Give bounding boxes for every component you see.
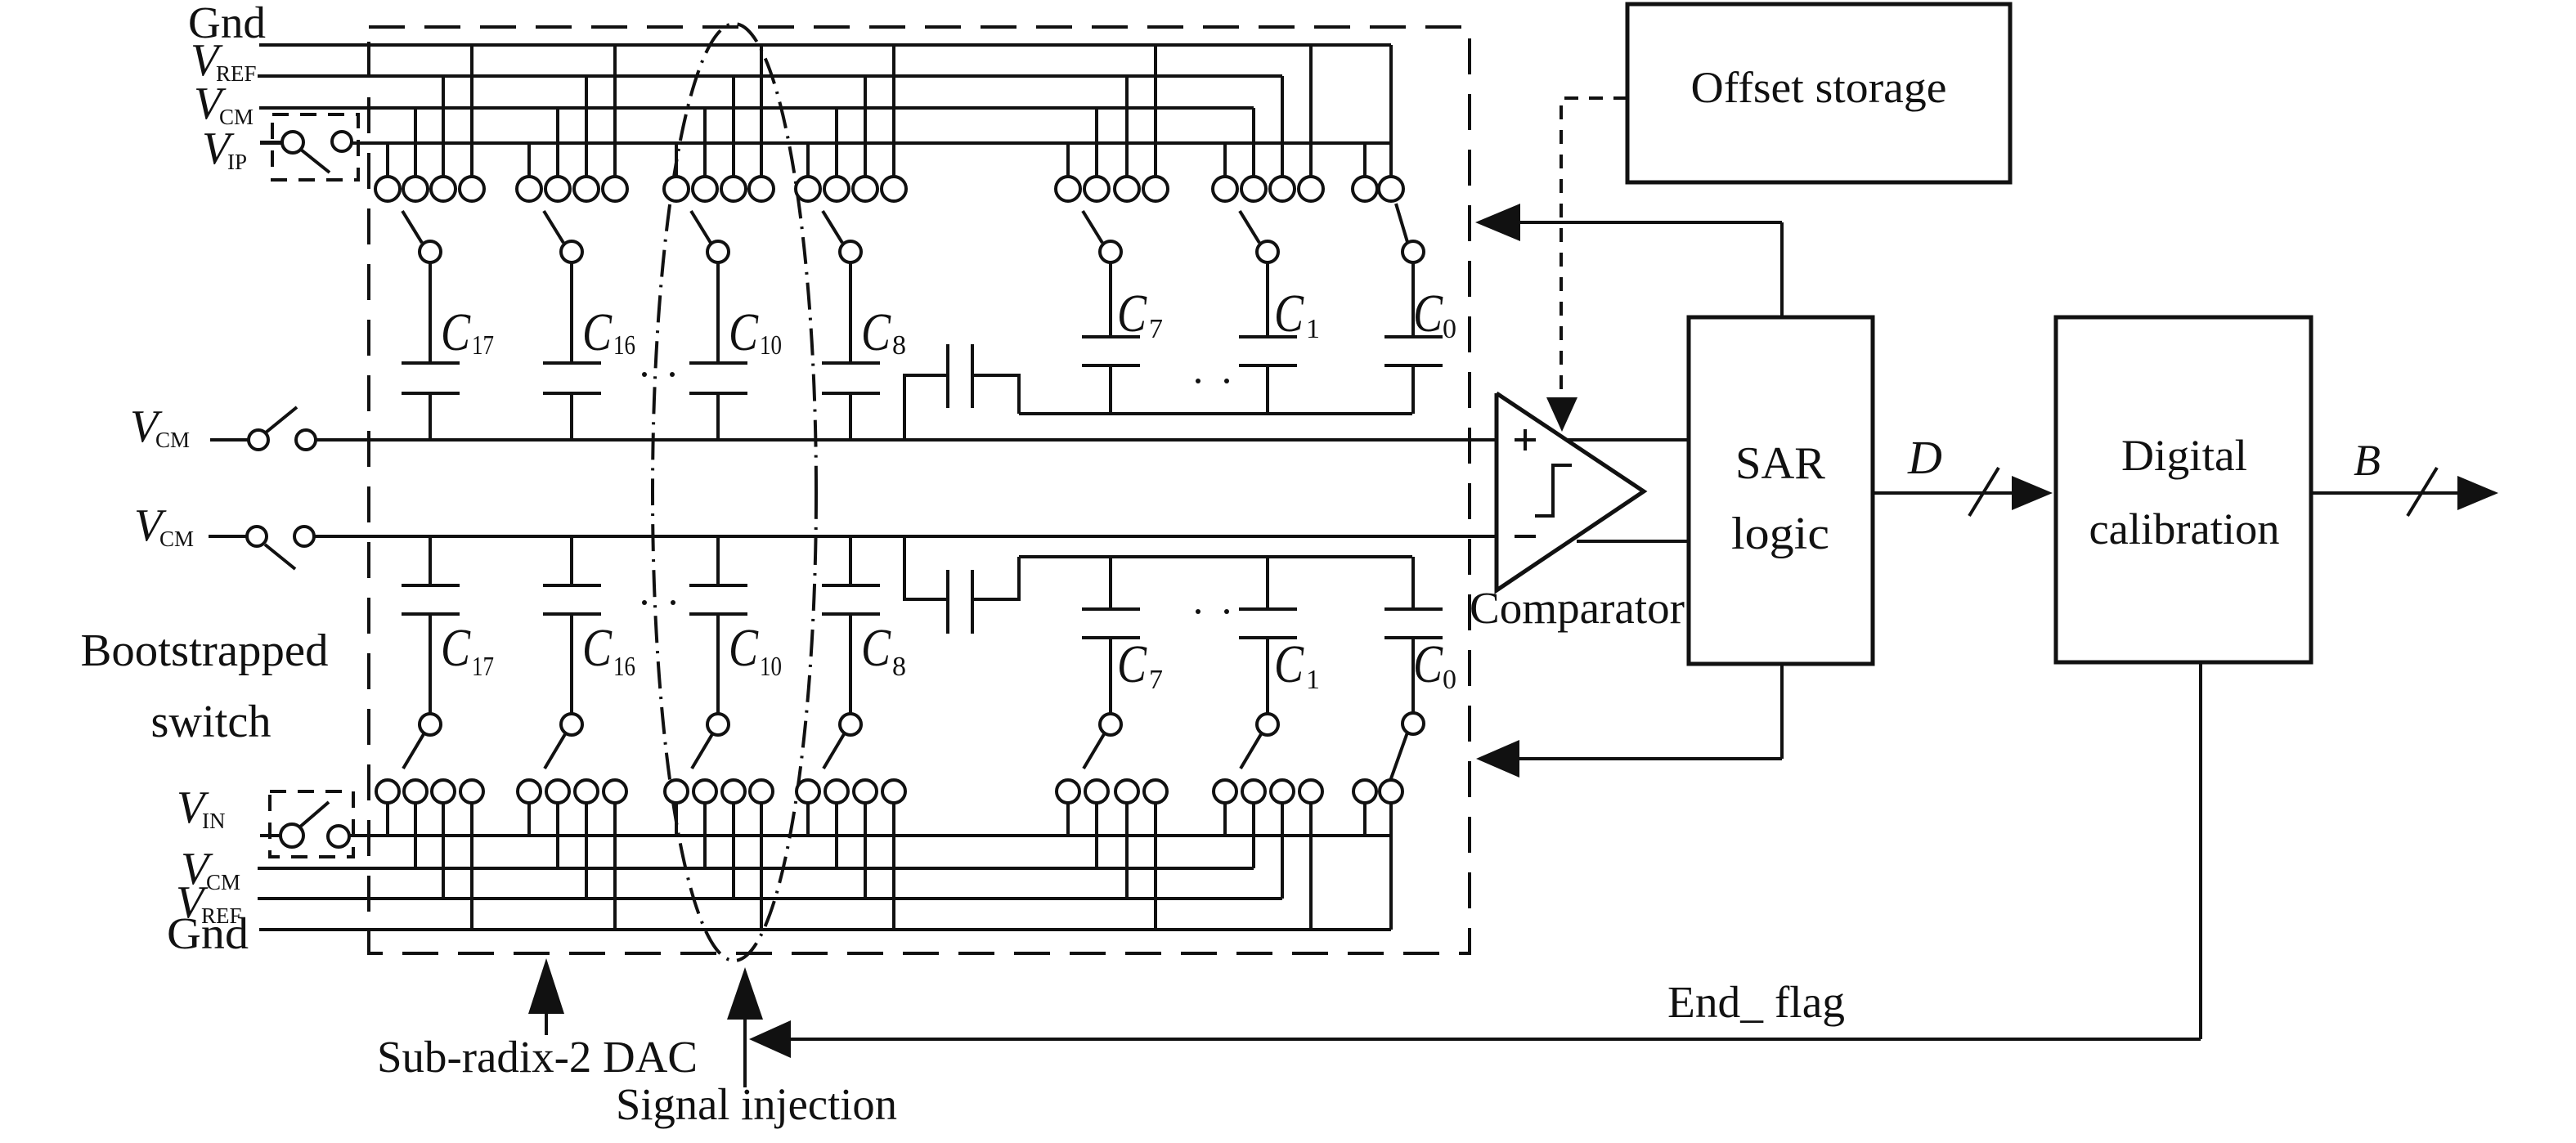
svg-text:7: 7 bbox=[1149, 665, 1163, 695]
svg-text:8: 8 bbox=[892, 652, 906, 682]
svg-text:0: 0 bbox=[1443, 314, 1456, 344]
svg-text:Gnd: Gnd bbox=[167, 908, 249, 958]
svg-text:C: C bbox=[582, 618, 613, 678]
svg-text:Offset storage: Offset storage bbox=[1691, 63, 1947, 112]
svg-text:B: B bbox=[2354, 436, 2381, 485]
svg-text:logic: logic bbox=[1731, 509, 1829, 559]
svg-text:C: C bbox=[1274, 634, 1304, 694]
svg-text:C: C bbox=[729, 618, 759, 678]
svg-text:8: 8 bbox=[892, 330, 906, 361]
svg-text:calibration: calibration bbox=[2089, 504, 2280, 554]
svg-text:C: C bbox=[1413, 634, 1443, 694]
svg-text:D: D bbox=[1907, 431, 1942, 484]
svg-text:End_ flag: End_ flag bbox=[1667, 977, 1845, 1027]
svg-text:C: C bbox=[441, 618, 471, 678]
svg-text:C: C bbox=[441, 303, 471, 362]
svg-text:Bootstrapped: Bootstrapped bbox=[81, 625, 329, 676]
svg-text:10: 10 bbox=[760, 652, 782, 682]
svg-text:Comparator: Comparator bbox=[1470, 583, 1685, 633]
svg-text:7: 7 bbox=[1149, 314, 1163, 344]
svg-text:C: C bbox=[729, 303, 759, 362]
svg-text:REF: REF bbox=[216, 61, 257, 86]
svg-text:10: 10 bbox=[760, 330, 782, 361]
svg-text:C: C bbox=[1274, 284, 1304, 343]
svg-text:C: C bbox=[1413, 284, 1443, 343]
svg-text:switch: switch bbox=[151, 697, 272, 747]
svg-text:C: C bbox=[861, 303, 891, 362]
svg-text:17: 17 bbox=[472, 330, 494, 361]
svg-text:IN: IN bbox=[202, 809, 226, 833]
svg-text:1: 1 bbox=[1306, 665, 1320, 695]
svg-text:16: 16 bbox=[613, 330, 635, 361]
svg-text:0: 0 bbox=[1443, 665, 1456, 695]
svg-text:SAR: SAR bbox=[1735, 438, 1826, 489]
svg-text:17: 17 bbox=[472, 652, 494, 682]
svg-text:IP: IP bbox=[227, 150, 247, 174]
svg-text:CM: CM bbox=[155, 428, 190, 452]
svg-text:C: C bbox=[1117, 634, 1147, 694]
svg-text:CM: CM bbox=[159, 527, 194, 551]
svg-text:Signal injection: Signal injection bbox=[616, 1079, 897, 1129]
svg-text:CM: CM bbox=[206, 870, 240, 894]
svg-text:1: 1 bbox=[1306, 314, 1320, 344]
svg-text:Sub-radix-2 DAC: Sub-radix-2 DAC bbox=[377, 1032, 698, 1082]
svg-text:C: C bbox=[582, 303, 613, 362]
svg-text:C: C bbox=[1117, 284, 1147, 343]
svg-text:16: 16 bbox=[613, 652, 635, 682]
svg-text:C: C bbox=[861, 618, 891, 678]
svg-text:Digital: Digital bbox=[2121, 431, 2247, 480]
